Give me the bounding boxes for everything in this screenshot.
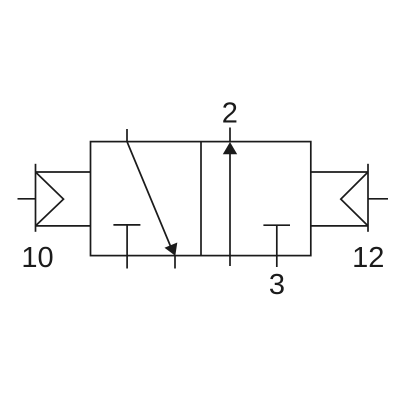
flow path vertical right square — [229, 152, 231, 266]
pilot chevron right — [341, 172, 368, 226]
port 2 stub above left square — [126, 129, 128, 142]
pilot input stub left — [18, 198, 36, 200]
pilot box left — [36, 164, 91, 232]
blocked port T left square — [113, 225, 140, 269]
pilot chevron left — [36, 172, 64, 226]
pilot output stub right — [368, 198, 388, 200]
position divider — [200, 142, 202, 256]
valve body outline — [91, 142, 311, 256]
port 2 line right square — [229, 128, 231, 142]
port stub below arrow left square — [174, 256, 176, 269]
flow path diagonal left square — [127, 142, 173, 251]
pilot box right — [311, 164, 368, 232]
svg-text:10: 10 — [21, 242, 53, 274]
blocked port T right square — [263, 225, 290, 267]
arrowhead diagonal flow — [165, 243, 178, 256]
svg-text:12: 12 — [352, 242, 384, 274]
svg-text:2: 2 — [222, 98, 238, 130]
svg-text:3: 3 — [269, 269, 285, 301]
arrowhead up port 2 — [223, 142, 237, 154]
